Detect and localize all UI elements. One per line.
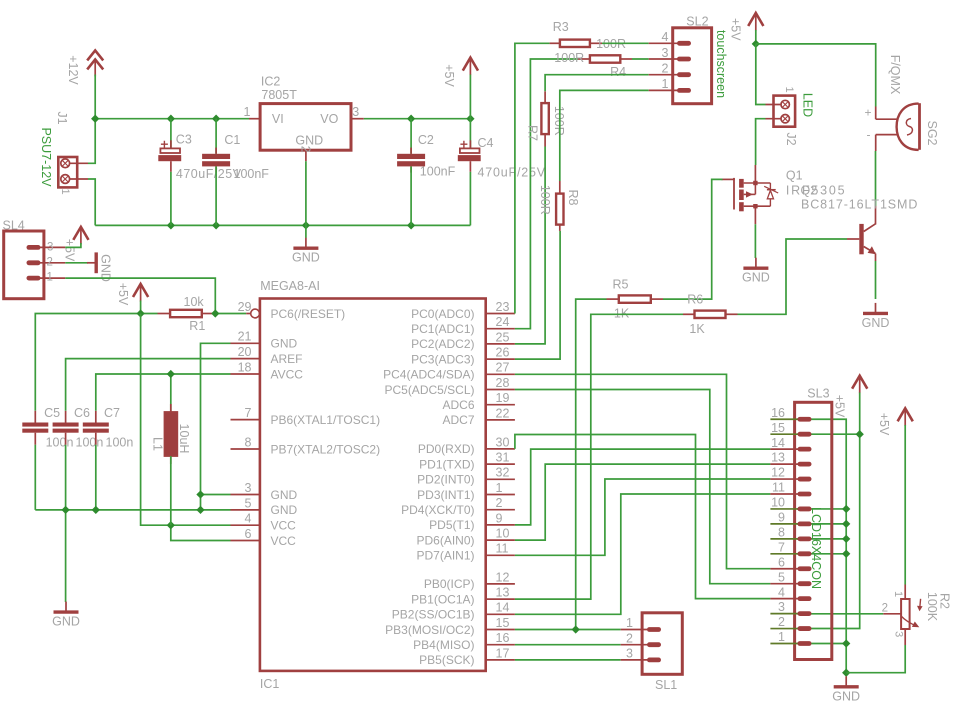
svg-text:+12V: +12V — [66, 55, 80, 85]
pin SL3 16 stub — [770, 418, 799, 420]
pin 2 stub IC2 GND — [305, 150, 307, 161]
svg-text:PB6(XTAL1/TOSC1): PB6(XTAL1/TOSC1) — [271, 413, 381, 427]
wire C7 top to AVCC row — [96, 374, 231, 411]
wire R1 right to IC1 pin 29 — [213, 313, 246, 315]
pin SL3 9 stub — [770, 523, 799, 525]
capacitor C6 100n — [53, 411, 79, 445]
pin 8 PB7(XTAL2/TOSC2) stub — [231, 448, 260, 450]
wire SL4 pin 3 to +5V — [65, 243, 81, 247]
ground symbol below IC2 — [293, 238, 318, 249]
svg-text:PB5(SCK): PB5(SCK) — [419, 653, 474, 667]
wire VO rail to +5V / C2 / C4 — [364, 118, 471, 120]
svg-text:SL2: SL2 — [686, 14, 708, 28]
svg-text:8: 8 — [245, 435, 252, 449]
pin SL3 3 stub — [770, 613, 799, 615]
capacitor C2 — [397, 119, 425, 226]
pin 30 PD0(RXD) stub — [486, 448, 515, 450]
svg-text:23: 23 — [496, 300, 510, 314]
svg-text:R2: R2 — [937, 593, 951, 609]
power symbol +5V arrow at R1 — [133, 284, 148, 302]
svg-text:+5V: +5V — [729, 18, 743, 41]
wire C5 bottom to GND row — [34, 445, 36, 510]
svg-text:100nF: 100nF — [420, 165, 456, 179]
svg-text:C2: C2 — [418, 133, 434, 147]
svg-text:+5V: +5V — [63, 239, 77, 262]
svg-text:R4: R4 — [610, 65, 626, 79]
svg-text:PD2(INT0): PD2(INT0) — [417, 473, 474, 487]
pin 24 PC1(ADC1) stub — [486, 328, 515, 330]
junction GND bus pin3 row — [196, 490, 204, 498]
wire GND row pin 5 — [35, 509, 230, 511]
svg-text:10: 10 — [771, 496, 785, 510]
capacitor C7 100n — [83, 411, 109, 445]
svg-text:2: 2 — [298, 146, 312, 153]
svg-text:R3: R3 — [553, 20, 569, 34]
svg-text:PD3(INT1): PD3(INT1) — [417, 488, 474, 502]
svg-text:PC0(ADC0): PC0(ADC0) — [411, 307, 474, 321]
svg-text:SL3: SL3 — [807, 387, 829, 401]
pin 12 PB0(ICP) stub — [486, 583, 515, 585]
svg-text:ADC7: ADC7 — [442, 413, 474, 427]
svg-text:5: 5 — [245, 496, 252, 510]
svg-text:16: 16 — [496, 631, 510, 645]
wire +5V stem to rail at C4 — [469, 75, 471, 119]
svg-text:8: 8 — [778, 525, 785, 539]
svg-text:SG2: SG2 — [925, 120, 939, 145]
svg-text:1: 1 — [626, 616, 633, 630]
junction R1 right / SL4 pin1 — [211, 309, 219, 317]
svg-text:20: 20 — [238, 345, 252, 359]
wire +5V to SL3 pin 15 and pin 2 — [797, 393, 860, 629]
wire J1 pin 2 to bottom rail — [88, 179, 95, 225]
wire Q2 emitter to GND — [875, 261, 877, 299]
junction GND bus pin 10 — [842, 505, 850, 513]
svg-text:1: 1 — [244, 105, 251, 119]
svg-text:Q1: Q1 — [786, 169, 803, 183]
svg-text:31: 31 — [496, 451, 510, 465]
wire SL4 pin 2 to GND — [65, 262, 88, 264]
wire VCC pin 4 row — [171, 524, 231, 526]
wire C5 top to R1 left node — [35, 314, 157, 411]
junction IC2 GND rail — [302, 221, 310, 229]
wire R2 pin 2 to SL3 pin 3 — [797, 613, 883, 615]
pin SL3 6 stub — [770, 568, 799, 570]
wire rail to J1 pin 1 — [88, 119, 95, 164]
wire R5 left down to PB3 row — [576, 299, 607, 629]
junction +5V at R1 left — [136, 309, 144, 317]
power symbol +5V arrow at SL3 — [852, 376, 867, 394]
svg-text:PB2(SS/OC1B): PB2(SS/OC1B) — [392, 608, 475, 622]
svg-text:PC2(ADC2): PC2(ADC2) — [411, 337, 474, 351]
svg-text:PC3(ADC3): PC3(ADC3) — [411, 352, 474, 366]
ground symbol bottom left — [54, 602, 79, 613]
wire PC3 to R8 bottom — [515, 231, 560, 359]
svg-text:L1: L1 — [151, 437, 165, 451]
svg-text:PB4(MISO): PB4(MISO) — [413, 638, 474, 652]
svg-text:GND: GND — [271, 503, 298, 517]
resistor R6 1k — [683, 311, 738, 318]
pin SL3 5 stub — [770, 583, 799, 585]
inductor L1 10uH — [164, 374, 177, 525]
svg-text:C4: C4 — [478, 136, 494, 150]
svg-text:6: 6 — [245, 527, 252, 541]
svg-text:1K: 1K — [614, 306, 630, 320]
svg-text:MEGA8-AI: MEGA8-AI — [260, 279, 320, 293]
pin SL3 11 stub — [770, 493, 799, 495]
svg-text:C6: C6 — [74, 406, 90, 420]
wire GND pin 3 row — [201, 494, 231, 496]
pin 31 PD1(TXD) stub — [486, 463, 515, 465]
pin SL3 15 stub — [770, 433, 799, 435]
pin 20 AREF stub — [231, 358, 260, 360]
junction GND bus pin 7 — [842, 550, 850, 558]
pin 5 GND stub — [231, 509, 260, 511]
svg-text:3: 3 — [245, 481, 252, 495]
svg-text:22: 22 — [496, 406, 510, 420]
svg-text:J2: J2 — [784, 132, 798, 145]
pin 14 PB2(SS/OC1B) stub — [486, 613, 515, 615]
wire GND bottom rail — [95, 224, 470, 226]
svg-text:3: 3 — [662, 46, 669, 60]
svg-text:7: 7 — [778, 540, 785, 554]
svg-text:100nF: 100nF — [234, 167, 270, 181]
svg-text:29: 29 — [238, 300, 252, 314]
svg-text:13: 13 — [771, 451, 785, 465]
resistor R8 100R vertical — [556, 181, 563, 231]
svg-text:PD1(TXD): PD1(TXD) — [419, 457, 474, 471]
svg-text:C7: C7 — [104, 406, 120, 420]
svg-text:4: 4 — [245, 512, 252, 526]
ground symbol below Q2 — [863, 303, 888, 314]
svg-text:12: 12 — [771, 466, 785, 480]
ground symbol below Q1 — [743, 258, 768, 269]
svg-text:3: 3 — [352, 105, 359, 119]
wire PB2 to SL3 pin 11 — [515, 494, 771, 614]
wire +12V top rail to IC2 VI — [95, 118, 249, 120]
pin 32 PD2(INT0) stub — [486, 478, 515, 480]
resistor R5 1k — [607, 295, 664, 302]
junction C1 top — [212, 115, 220, 123]
junction C7 bottom — [92, 506, 100, 514]
svg-text:1: 1 — [778, 630, 785, 644]
pin 26 PC3(ADC3) stub — [486, 358, 515, 360]
svg-text:GND: GND — [862, 316, 890, 330]
pin 15 PB3(MOSI/OC2) stub — [486, 629, 515, 631]
svg-text:24: 24 — [496, 315, 510, 329]
pin 16 PB4(MISO) stub — [486, 644, 515, 646]
pin 18 AVCC stub — [231, 373, 260, 375]
svg-text:PSU7-12V: PSU7-12V — [39, 127, 53, 187]
junction GND bus bottom — [842, 669, 850, 677]
svg-text:2: 2 — [662, 62, 669, 76]
svg-text:VI: VI — [272, 112, 284, 126]
svg-text:15: 15 — [496, 616, 510, 630]
wire SL3 pin 8 to GND bus — [797, 538, 846, 540]
svg-text:100R: 100R — [554, 51, 584, 65]
svg-text:21: 21 — [238, 330, 252, 344]
pin 22 ADC7 stub — [486, 419, 515, 421]
svg-text:PB0(ICP): PB0(ICP) — [424, 577, 475, 591]
svg-text:2: 2 — [626, 631, 633, 645]
pin 29 PC6(/RESET) stub — [246, 313, 250, 315]
svg-text:100n: 100n — [46, 435, 74, 449]
svg-text:AVCC: AVCC — [271, 367, 304, 381]
pin 3 stub IC2 VO — [351, 118, 364, 120]
svg-text:3: 3 — [626, 647, 633, 661]
wire SL3 pin 7 to GND bus — [797, 553, 846, 555]
svg-text:AREF: AREF — [271, 352, 303, 366]
junction C3 bottom — [167, 221, 175, 229]
svg-text:GND: GND — [742, 271, 770, 285]
connector J1 PSU7-12V — [58, 157, 88, 187]
svg-text:10k: 10k — [184, 295, 205, 309]
svg-text:GND: GND — [52, 615, 80, 629]
svg-text:R1: R1 — [189, 319, 205, 333]
svg-text:25: 25 — [496, 330, 510, 344]
connector SL2 touchscreen — [649, 28, 712, 104]
svg-text:100K: 100K — [925, 592, 939, 622]
wire R2 pin 3 to GND node — [846, 645, 905, 673]
wire R3 right to SL2 pin 4 — [602, 42, 649, 44]
pin SL3 13 stub — [770, 463, 799, 465]
svg-text:PC1(ADC1): PC1(ADC1) — [411, 322, 474, 336]
svg-text:32: 32 — [496, 466, 510, 480]
svg-text:1K: 1K — [689, 322, 705, 336]
svg-text:11: 11 — [496, 542, 509, 556]
wire +5V stem to J2 node — [755, 30, 757, 44]
svg-text:1: 1 — [783, 86, 795, 92]
svg-text:R8: R8 — [566, 190, 580, 206]
connector J2 LED — [766, 96, 796, 127]
svg-text:10uH: 10uH — [177, 424, 191, 454]
svg-text:GND: GND — [271, 337, 298, 351]
svg-text:PB7(XTAL2/TOSC2): PB7(XTAL2/TOSC2) — [271, 442, 381, 456]
wire PC0 to R3 — [515, 43, 550, 313]
pin 13 PB1(OC1A) stub — [486, 598, 515, 600]
svg-text:+5V: +5V — [877, 413, 891, 436]
pin SL3 12 stub — [770, 478, 799, 480]
svg-text:PD4(XCK/T0): PD4(XCK/T0) — [401, 503, 474, 517]
wire SL3 pin 16 to GND bus — [797, 419, 846, 672]
svg-text:14: 14 — [771, 436, 785, 450]
wire SL3 pin 1 to GND bus — [797, 643, 846, 645]
wire PC1 to R4 — [515, 59, 578, 329]
svg-text:3: 3 — [778, 600, 785, 614]
pin SL3 14 stub — [770, 448, 799, 450]
wire VCC pin 6 row — [171, 525, 231, 540]
capacitor C3 electrolytic — [158, 119, 181, 226]
svg-text:19: 19 — [496, 391, 510, 405]
svg-text:100R: 100R — [596, 37, 626, 51]
pin 3 GND stub — [231, 494, 260, 496]
svg-text:9: 9 — [496, 511, 503, 525]
connector SL3 body — [795, 402, 832, 659]
pin 4 VCC stub — [231, 524, 260, 526]
wire SG2 minus to Q2 collector — [875, 151, 877, 206]
pin 25 PC2(ADC2) stub — [486, 343, 515, 345]
svg-text:4: 4 — [662, 30, 669, 44]
pin 1 PD3(INT1) stub — [486, 494, 515, 496]
svg-text:3: 3 — [892, 631, 904, 637]
pin 28 PC5(ADC5/SCL) stub — [486, 389, 515, 391]
wire SL4 pin 1 to RESET net — [65, 278, 215, 313]
pin SL3 4 stub — [770, 598, 799, 600]
wire PD7 to SL3 pin 12 — [515, 479, 771, 555]
svg-text:C1: C1 — [224, 133, 240, 147]
ic IC1 MEGA8-AI body — [260, 299, 486, 671]
svg-text:VO: VO — [320, 112, 338, 126]
wire R6 right to Q2 base — [738, 239, 848, 314]
power symbol +5V arrow at SL4 — [73, 227, 88, 245]
svg-text:Q2: Q2 — [801, 184, 818, 198]
pin SL3 2 stub — [770, 628, 799, 630]
pin SL3 1 stub — [770, 643, 799, 645]
pin 7 PB6(XTAL1/TOSC1) stub — [231, 419, 260, 421]
wire +5V bus down to VCC — [141, 314, 171, 526]
svg-text:PC5(ADC5/SCL): PC5(ADC5/SCL) — [384, 383, 474, 397]
speaker SG2 F/QMX — [876, 103, 920, 151]
wire +5V node down to J2 pin 1 — [756, 44, 766, 105]
svg-text:PC4(ADC4/SDA): PC4(ADC4/SDA) — [383, 368, 474, 382]
wire R7 top to SL2 pin 2 — [545, 75, 649, 92]
wire PC5 SCL to SL3 pin 5 — [515, 390, 771, 584]
svg-text:IC1: IC1 — [260, 677, 280, 691]
svg-text:LED: LED — [801, 93, 815, 117]
svg-text:12: 12 — [496, 570, 510, 584]
svg-text:1: 1 — [59, 188, 71, 194]
wire R5 right to Q1 gate — [663, 179, 723, 299]
svg-text:17: 17 — [496, 646, 510, 660]
junction C2 top — [407, 115, 415, 123]
svg-text:10: 10 — [496, 527, 510, 541]
svg-text:-: - — [867, 128, 871, 142]
svg-text:6: 6 — [778, 555, 785, 569]
svg-text:3: 3 — [47, 242, 53, 254]
wire PD6 to SL3 pin 13 — [515, 464, 771, 540]
wire PB3 to SL1 pin 1 — [515, 629, 621, 631]
svg-text:GND: GND — [832, 689, 860, 703]
svg-text:PD7(AIN1): PD7(AIN1) — [416, 549, 474, 563]
junction GND bus pin5 row — [196, 506, 204, 514]
junction C1 bottom — [212, 221, 220, 229]
wire R6 left down to PB1 row — [515, 314, 683, 599]
svg-text:R7: R7 — [525, 125, 539, 141]
resistor R7 100R vertical — [541, 91, 548, 146]
pin 27 PC4(ADC4/SDA) stub — [486, 373, 515, 375]
svg-text:+5V: +5V — [116, 283, 130, 306]
power symbol +5V arrow near J2 — [748, 13, 763, 31]
svg-text:VCC: VCC — [271, 519, 297, 533]
junction GND bus pin 8 — [842, 535, 850, 543]
svg-text:R5: R5 — [613, 277, 629, 291]
wire GND21 row and bus down — [201, 343, 231, 510]
svg-text:30: 30 — [496, 435, 510, 449]
pin 10 PD6(AIN0) stub — [486, 539, 515, 541]
svg-text:ADC6: ADC6 — [442, 398, 474, 412]
capacitor C5 100n — [22, 411, 48, 445]
power symbol +5V arrow above C4 — [463, 58, 478, 76]
pin 11 PD7(AIN1) stub — [486, 554, 515, 556]
svg-text:PC6(/RESET): PC6(/RESET) — [271, 307, 346, 321]
junction GND bus pin 1 — [842, 639, 850, 647]
wire PD0 RXD to SL3 pin 4 — [515, 435, 771, 599]
wire PD5 to SL3 pin 14 — [515, 449, 771, 525]
svg-text:1: 1 — [496, 481, 503, 495]
svg-text:2: 2 — [47, 256, 53, 268]
svg-text:2: 2 — [882, 602, 888, 614]
svg-text:C5: C5 — [44, 406, 60, 420]
wire GND row drop to ground — [65, 510, 67, 602]
junction C2 bottom — [407, 221, 415, 229]
svg-text:F/QMX: F/QMX — [888, 55, 902, 95]
svg-text:SL1: SL1 — [655, 678, 677, 692]
svg-text:9: 9 — [778, 511, 785, 525]
svg-text:26: 26 — [496, 346, 510, 360]
wire PC2 to R7 bottom — [515, 147, 545, 344]
junction C6 bottom / GND drop — [61, 506, 69, 514]
svg-text:2: 2 — [778, 615, 785, 629]
pin 21 GND stub — [231, 342, 260, 344]
pin 19 ADC6 stub — [486, 404, 515, 406]
junction +5V pin 15 — [856, 430, 864, 438]
ground symbol below SL3 — [834, 676, 859, 687]
wire C7 bottom to GND row — [95, 445, 97, 510]
pin 6 VCC stub — [231, 540, 260, 542]
wire PB5 to SL1 pin 3 — [515, 659, 621, 661]
svg-text:100n: 100n — [76, 435, 104, 449]
svg-text:+: + — [865, 106, 872, 120]
transistor Q2 BC817 npn — [847, 206, 876, 261]
svg-text:C3: C3 — [176, 132, 192, 146]
svg-text:SL4: SL4 — [3, 219, 25, 233]
svg-text:GND: GND — [271, 488, 298, 502]
wire IC2 GND down — [305, 161, 307, 238]
junction C4 top / +5V — [466, 115, 474, 123]
svg-text:PD5(T1): PD5(T1) — [429, 518, 474, 532]
power symbol +12V arrow — [87, 50, 103, 76]
svg-text:28: 28 — [496, 376, 510, 390]
wire SL3 pin 10 to GND bus — [797, 508, 846, 510]
svg-text:J1: J1 — [55, 111, 69, 124]
wire C6 top to AREF row — [66, 359, 231, 411]
svg-text:PD6(AIN0): PD6(AIN0) — [416, 533, 474, 547]
svg-text:LCD16X4CON: LCD16X4CON — [809, 507, 823, 589]
svg-text:13: 13 — [496, 586, 510, 600]
svg-text:+5V: +5V — [442, 64, 456, 87]
wire J2 pin 2 to Q1 source — [756, 119, 766, 165]
junction L1 bottom / VCC — [167, 521, 175, 529]
svg-text:+5V: +5V — [833, 395, 847, 418]
junction R5 wire / PB3 row — [572, 625, 580, 633]
svg-text:PD0(RXD): PD0(RXD) — [418, 442, 475, 456]
resistor R3 100R — [550, 40, 602, 47]
pin 23 PC0(ADC0) stub — [486, 313, 515, 315]
svg-text:2: 2 — [496, 496, 503, 510]
connector SL4 — [4, 231, 66, 299]
svg-text:15: 15 — [771, 421, 785, 435]
pin 17 PB5(SCK) stub — [486, 659, 515, 661]
pin 9 PD5(T1) stub — [486, 524, 515, 526]
svg-text:R6: R6 — [687, 293, 703, 307]
svg-text:27: 27 — [496, 361, 510, 375]
voltage regulator IC2 7805T — [260, 104, 351, 151]
junction GND bus pin 9 — [842, 520, 850, 528]
svg-text:BC817-16LT1SMD: BC817-16LT1SMD — [801, 197, 918, 211]
resistor R4 100R — [578, 55, 632, 62]
svg-text:PB3(MOSI/OC2): PB3(MOSI/OC2) — [385, 623, 474, 637]
svg-text:100n: 100n — [106, 435, 134, 449]
svg-text:100R: 100R — [538, 185, 552, 215]
